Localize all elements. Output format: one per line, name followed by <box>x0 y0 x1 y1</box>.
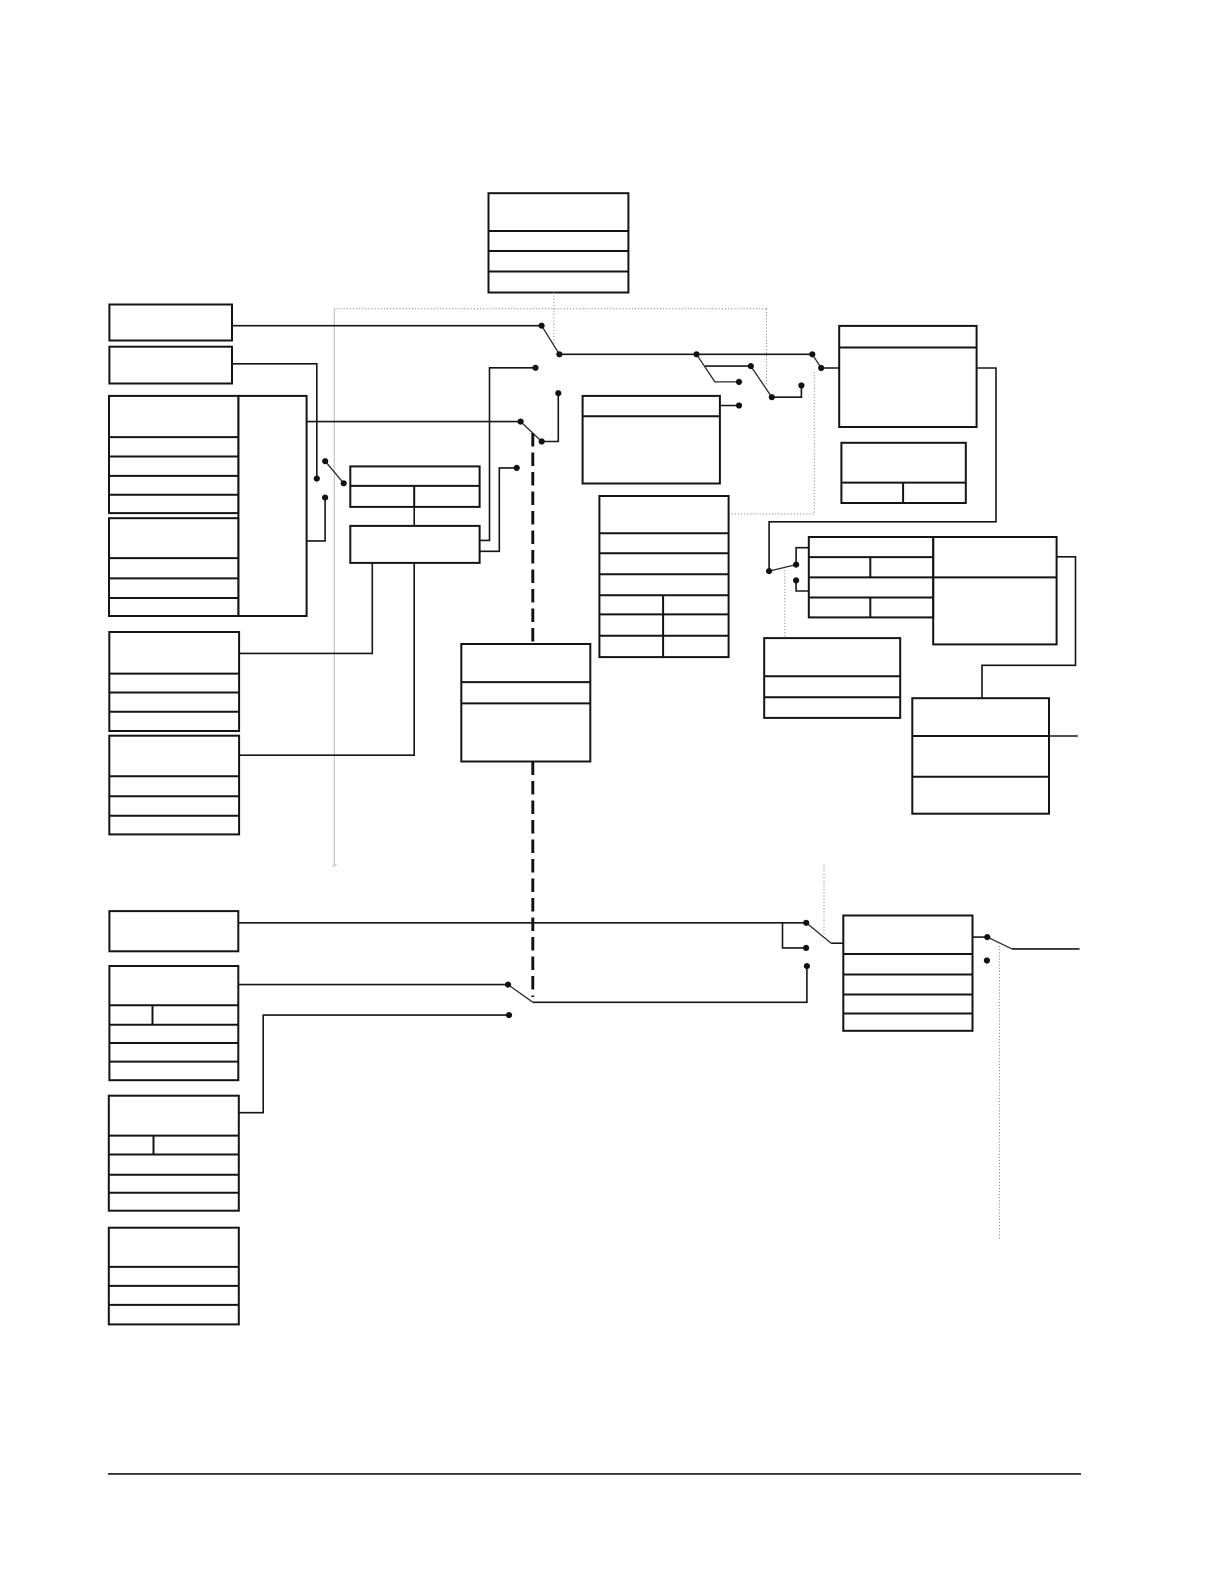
tick at x334 bottom <box>333 864 337 867</box>
connector B1-B2 <box>413 507 415 526</box>
box B2 <box>350 526 479 563</box>
box F rows <box>109 736 239 835</box>
wire branch y366 <box>705 365 751 367</box>
wire into box J <box>831 942 843 944</box>
box P rows <box>599 496 728 657</box>
dotted drop from box T <box>553 293 555 346</box>
box C2 rows <box>109 518 238 616</box>
box E rows <box>109 632 239 731</box>
wire contact to table L row1 <box>796 548 809 565</box>
dashed net vertical lower <box>531 762 534 998</box>
switch arm S4 <box>812 354 821 368</box>
box I rows <box>109 1096 239 1211</box>
dotted horizontal net y309 <box>334 308 766 310</box>
wire U loop to node <box>769 368 996 571</box>
switch arm S2 <box>697 354 740 382</box>
box M center <box>461 644 590 762</box>
dotted horizontal y514 <box>729 513 815 515</box>
gray vertical net x334 <box>333 309 335 866</box>
wire I up to node <box>239 1015 509 1113</box>
bottom rule <box>108 1473 1081 1475</box>
wire B1 to F <box>239 563 414 755</box>
switch arm S8 <box>806 923 831 943</box>
dotted vertical x814 <box>813 372 815 514</box>
wire contact S3 <box>772 386 802 398</box>
wire A to node <box>232 325 542 327</box>
box G <box>109 911 238 951</box>
box V <box>841 443 965 503</box>
wire long to contact <box>533 966 807 1002</box>
wire right stub <box>1012 948 1080 950</box>
switch arm S3 <box>751 366 772 397</box>
dashed net vertical upper <box>531 433 534 644</box>
dotted vertical x1000 <box>999 946 1001 1239</box>
box B1 <box>350 466 479 507</box>
switch arm S7 <box>769 565 796 572</box>
wire node to box B2 upper <box>480 368 536 541</box>
box L table <box>809 537 933 617</box>
wire B down <box>232 364 317 479</box>
box W rows <box>764 638 900 718</box>
box C1 rows <box>109 396 238 513</box>
box H rows <box>109 966 238 1080</box>
wire J out <box>973 936 988 938</box>
wire Y to node <box>720 405 739 407</box>
box J rows <box>843 916 972 1031</box>
wire into box U <box>821 367 839 369</box>
dotted vertical x766 <box>766 309 768 386</box>
box R <box>933 537 1056 644</box>
wire G to node <box>238 922 806 924</box>
box T top center <box>489 193 629 292</box>
wire R to X <box>982 557 1076 698</box>
switch arm S6 <box>521 422 542 442</box>
wire bus y354 <box>559 353 812 355</box>
box U <box>839 326 976 427</box>
box K rows <box>109 1228 239 1325</box>
wire B2 to E <box>239 563 372 654</box>
box Y <box>583 396 720 484</box>
wire node to box B2 lower <box>480 468 517 551</box>
junction dots <box>314 323 991 1019</box>
wire contact to table L row3 <box>796 580 809 591</box>
wire G branch contact <box>783 923 807 948</box>
switch arm S5 <box>325 461 344 483</box>
dotted vertical x824 <box>823 865 825 935</box>
wire X stub <box>1049 735 1078 737</box>
box A <box>109 305 232 341</box>
switch arm S9 <box>508 985 533 1003</box>
box B <box>109 347 232 384</box>
dotted vertical x785 <box>784 567 786 638</box>
wire node up <box>542 393 559 441</box>
wire H to node <box>238 984 508 986</box>
switch arm A <box>542 326 560 355</box>
box N narrow <box>238 396 306 616</box>
box X rows <box>912 698 1049 814</box>
switch arm S10 <box>987 937 1012 949</box>
wire N to node <box>307 421 521 423</box>
wire node to box N <box>307 498 326 541</box>
